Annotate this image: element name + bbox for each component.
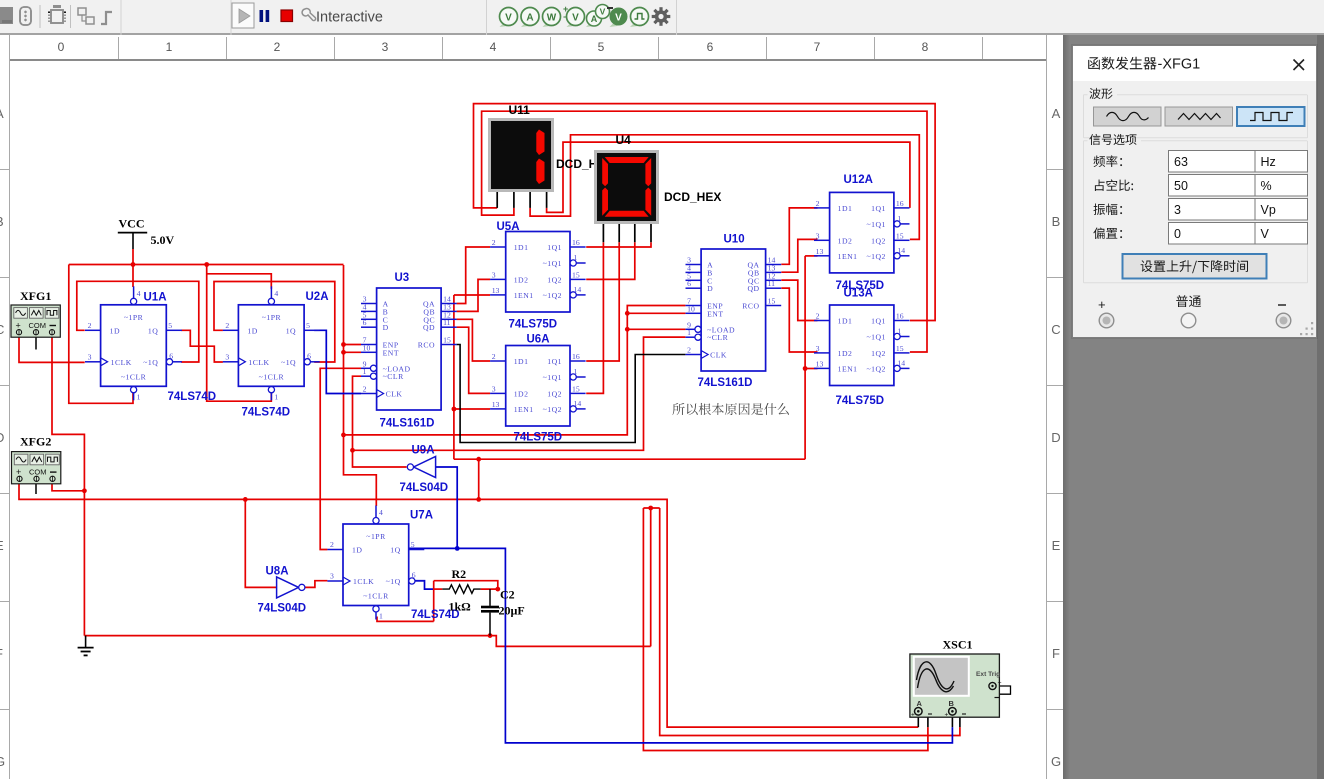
wire U10 QD to U13A 1D2 (781, 288, 817, 352)
svg-text:Ext Trig: Ext Trig (976, 671, 1000, 678)
svg-text:~1Q2: ~1Q2 (866, 364, 885, 373)
wire ground rail bottom (84, 635, 490, 637)
svg-text:1D: 1D (352, 546, 362, 555)
svg-text:1EN1: 1EN1 (514, 405, 534, 414)
junction XFG2 minus / XFG1 minus (82, 488, 87, 493)
desk gray area (1063, 35, 1324, 779)
wire XFG1 minus to ground rail (52, 337, 84, 635)
wire R2 right lead to C2 node (481, 588, 498, 590)
wire U13A 1EN1 stub link (805, 368, 817, 370)
svg-text:1Q1: 1Q1 (871, 204, 886, 213)
svg-text:ENT: ENT (383, 348, 399, 357)
junction VCC / U3 ENP (341, 342, 346, 347)
wire U3 QD to U6A 1D2 (457, 327, 491, 393)
svg-text:+: + (998, 680, 1002, 687)
junction U9A output net (350, 448, 355, 453)
svg-text:74LS04D: 74LS04D (258, 603, 307, 615)
svg-text:1Q1: 1Q1 (547, 357, 562, 366)
svg-text:15: 15 (896, 231, 904, 240)
junction VCC rail / U1A (131, 262, 136, 267)
svg-text:15: 15 (572, 270, 580, 279)
svg-text:1D2: 1D2 (838, 349, 853, 358)
svg-text:RCO: RCO (742, 302, 759, 311)
svg-text:1Q2: 1Q2 (871, 349, 886, 358)
svg-text:16: 16 (572, 238, 580, 247)
counter U10 74LS161D (686, 249, 782, 371)
junction enable / U6A 1EN1 (452, 407, 457, 412)
ground (78, 636, 94, 656)
svg-text:13: 13 (492, 400, 500, 409)
wire U5A 1Q2 to U4 display pin 3 (586, 242, 635, 279)
seven segment display U4 (594, 150, 659, 242)
wire XFG1 plus to U1A CLK (19, 337, 85, 362)
wire U2A clear loop (207, 265, 272, 402)
svg-text:0: 0 (1174, 227, 1181, 241)
svg-text:~1PR: ~1PR (124, 313, 144, 322)
wire U3 QC to U6A 1D1 (457, 319, 491, 361)
svg-text:U9A: U9A (412, 445, 435, 457)
svg-text:4: 4 (379, 508, 383, 517)
junction VCC rail / U2A loop (204, 262, 209, 267)
svg-text:%: % (1261, 179, 1272, 193)
wire U13A 1Q1 to U11 display pin 1 (474, 104, 936, 321)
svg-text:CLK: CLK (710, 351, 727, 360)
svg-text:1CLK: 1CLK (111, 358, 132, 367)
wire U3 ~LOAD to U7A 1D (320, 368, 361, 549)
wire VCC down branch to U3 enables (344, 265, 377, 506)
svg-text:V: V (505, 13, 512, 24)
flip-flop U1A (85, 286, 182, 401)
svg-text:3: 3 (88, 352, 92, 361)
svg-text:6: 6 (412, 571, 416, 580)
svg-text:1: 1 (574, 367, 578, 376)
wire latch enable vertical branch (478, 459, 480, 499)
svg-text:~CLR: ~CLR (383, 372, 404, 381)
svg-text:1D1: 1D1 (838, 204, 853, 213)
svg-text:+: + (945, 712, 949, 719)
svg-text:XFG1: XFG1 (20, 289, 51, 303)
junction XFG2 plus / latch enable branch (476, 497, 481, 502)
junction VCC / U10 ENT (625, 311, 630, 316)
svg-text:14: 14 (897, 246, 905, 255)
svg-text:R2: R2 (452, 567, 467, 581)
svg-text:1D1: 1D1 (514, 243, 529, 252)
svg-text:RCO: RCO (418, 341, 435, 350)
svg-text:V: V (1261, 227, 1270, 241)
svg-text:13: 13 (816, 359, 824, 368)
svg-text:14: 14 (574, 285, 582, 294)
svg-text:1Q1: 1Q1 (547, 243, 562, 252)
wire R2 bypass top (434, 581, 498, 589)
svg-text:~1Q: ~1Q (143, 358, 158, 367)
svg-text:2: 2 (492, 238, 496, 247)
svg-text:2: 2 (88, 321, 92, 330)
wire U1A 1Q to U2A CLK (181, 330, 223, 362)
wire XFG1 COM stub (35, 337, 37, 349)
svg-text:COM: COM (29, 468, 47, 477)
svg-text:2: 2 (816, 312, 820, 321)
svg-text:2: 2 (330, 540, 334, 549)
function generator dialog (1072, 45, 1317, 338)
svg-text:Interactive: Interactive (316, 10, 383, 26)
wire U1A preset/clear loop (69, 265, 133, 404)
svg-text:74LS161D: 74LS161D (380, 418, 435, 430)
junction C2 bottom / ground rail (488, 633, 493, 638)
seven segment display U11 (488, 118, 554, 208)
wire XFG2 COM stub (35, 482, 37, 494)
svg-text:1D2: 1D2 (514, 389, 529, 398)
svg-text:1: 1 (897, 214, 901, 223)
latch U12A 74LS75D (814, 192, 910, 273)
svg-text:D: D (383, 323, 389, 332)
svg-text:~1Q2: ~1Q2 (866, 252, 885, 261)
svg-text:13: 13 (816, 247, 824, 256)
svg-text:1: 1 (687, 328, 691, 337)
wire U2A ~1Q feedback to 1D (214, 282, 335, 363)
svg-text:1Q: 1Q (148, 326, 158, 335)
wire VCC rail net (69, 264, 344, 266)
wire U13A 1Q2 to U11 display pin 2 (482, 111, 927, 352)
wire VCC to U3 ENT (344, 351, 362, 353)
svg-text:-XFG1: -XFG1 (1158, 57, 1201, 73)
wire U2A 1Q to U3 CLK blue (314, 330, 361, 393)
wire VCC branch right to U10 (344, 306, 686, 435)
svg-text:16: 16 (572, 352, 580, 361)
svg-text:6: 6 (363, 318, 367, 327)
svg-text:74LS75D: 74LS75D (509, 319, 558, 331)
svg-text:1D1: 1D1 (514, 357, 529, 366)
junction VCC branch (341, 433, 346, 438)
wire enable to U5A U6A 1EN1 (453, 295, 455, 459)
svg-text:1Q2: 1Q2 (547, 275, 562, 284)
svg-text:10: 10 (363, 343, 371, 352)
wire U12A 1Q1 to U11 display pin 4 (547, 142, 910, 212)
svg-text:ENT: ENT (707, 309, 723, 318)
wire scope A minus stub black (922, 711, 928, 727)
svg-text:COM: COM (29, 321, 47, 330)
svg-text:QD: QD (423, 323, 435, 332)
sheet canvas (0, 35, 1063, 779)
svg-text:74LS74D: 74LS74D (168, 391, 217, 403)
svg-text:2: 2 (225, 321, 229, 330)
svg-text:U4: U4 (616, 133, 632, 147)
junction enable / U13A 1EN1 (803, 366, 808, 371)
svg-text:3: 3 (330, 572, 334, 581)
svg-text:1: 1 (274, 392, 278, 401)
svg-text:2: 2 (363, 385, 367, 394)
svg-text:XFG2: XFG2 (20, 435, 51, 449)
svg-text:5: 5 (411, 540, 415, 549)
svg-text:C2: C2 (500, 588, 515, 602)
svg-text:74LS74D: 74LS74D (242, 407, 291, 419)
svg-text:1: 1 (363, 367, 367, 376)
svg-text:~1Q: ~1Q (281, 358, 296, 367)
wire enable to U12A U13A 1EN1 (804, 256, 806, 459)
wire R2 left lead (434, 588, 443, 590)
svg-text:2: 2 (492, 352, 496, 361)
svg-text:~CLR: ~CLR (707, 333, 728, 342)
wire U10 ENT link (627, 312, 685, 314)
flip-flop U7A (327, 506, 424, 621)
wire U10 QC to U13A 1D1 (781, 280, 817, 320)
svg-text:1D: 1D (247, 326, 257, 335)
wire U6A 1EN1 stub link (454, 408, 490, 410)
svg-text:6: 6 (307, 351, 311, 360)
svg-text:~1PR: ~1PR (262, 313, 282, 322)
wire U1A ~1Q feedback to 1D (77, 281, 199, 362)
svg-text:~1Q2: ~1Q2 (543, 291, 562, 300)
svg-text:1Q: 1Q (390, 546, 400, 555)
wire U3 QB to U5A 1D2 (457, 279, 491, 311)
svg-text:74LS75D: 74LS75D (514, 432, 563, 444)
svg-text:+: + (16, 321, 21, 331)
svg-text:V: V (615, 13, 622, 24)
oscilloscope XSC1 (910, 654, 1002, 719)
svg-text:6: 6 (687, 279, 691, 288)
svg-text:16: 16 (896, 312, 904, 321)
svg-text:10: 10 (687, 304, 695, 313)
wire U7A ~1CLR loop (377, 617, 434, 622)
wire XFG2 plus long run to scope A (19, 482, 918, 727)
wire ground to scope A minus (643, 508, 928, 751)
svg-text:1kΩ: 1kΩ (449, 600, 472, 614)
svg-text:16: 16 (896, 199, 904, 208)
svg-text:VCC: VCC (119, 217, 145, 231)
svg-text:XSC1: XSC1 (943, 638, 973, 652)
svg-text:V: V (572, 13, 579, 24)
latch U5A 74LS75D (490, 232, 585, 313)
svg-text:U10: U10 (724, 234, 745, 246)
wire scope A plus stub black (917, 715, 919, 728)
svg-text:1: 1 (574, 253, 578, 262)
svg-text:U8A: U8A (266, 566, 289, 578)
svg-text:15: 15 (768, 297, 776, 306)
svg-text:15: 15 (896, 344, 904, 353)
junction enable run / branch (476, 457, 481, 462)
wire U8A output to U7A CLK (305, 581, 327, 588)
svg-text:1Q2: 1Q2 (871, 236, 886, 245)
svg-text:15: 15 (572, 384, 580, 393)
svg-text:3: 3 (816, 231, 820, 240)
svg-text:A: A (526, 13, 533, 24)
junction R2 right / C2 (495, 587, 500, 592)
svg-text:QD: QD (747, 284, 759, 293)
svg-text:74LS75D: 74LS75D (836, 395, 885, 407)
svg-text:1CLK: 1CLK (353, 577, 374, 586)
svg-text:1EN1: 1EN1 (838, 364, 858, 373)
svg-text:+: + (1098, 297, 1106, 312)
wire U12A 1Q2 to U11 display pin 3 (530, 135, 919, 240)
wire branch to U8A input (245, 499, 276, 587)
svg-text:A: A (917, 699, 923, 708)
svg-text:13: 13 (492, 286, 500, 295)
junction VCC / U10 ~LOAD (625, 327, 630, 332)
wire U9A output to U3 ~CLR (353, 376, 407, 467)
svg-text:11: 11 (768, 279, 776, 288)
wire U7A 1Q to scope B plus blue (409, 548, 952, 743)
svg-text:U7A: U7A (410, 510, 433, 522)
svg-text:14: 14 (574, 399, 582, 408)
svg-text:74LS04D: 74LS04D (400, 482, 449, 494)
svg-text:63: 63 (1174, 155, 1188, 169)
svg-text:5: 5 (306, 321, 310, 330)
svg-text:U6A: U6A (527, 334, 550, 346)
wire scope B minus stub black (954, 711, 960, 727)
svg-text:U13A: U13A (844, 288, 873, 300)
svg-text:~1PR: ~1PR (366, 532, 386, 541)
svg-text:3: 3 (492, 384, 496, 393)
wire XFG2 minus joins ground net (52, 482, 84, 491)
svg-text:Vp: Vp (1261, 203, 1276, 217)
wire U5A 1EN1 stub link (454, 294, 490, 296)
wire VCC to U1A pin 4 (132, 233, 134, 249)
svg-text:CLK: CLK (386, 390, 403, 399)
svg-text:1D1: 1D1 (838, 317, 853, 326)
capacitor C2 (481, 589, 499, 636)
wire U7A ~1Q jog blue (413, 581, 434, 589)
svg-text:1D2: 1D2 (514, 275, 529, 284)
svg-text:~1Q1: ~1Q1 (866, 333, 885, 342)
svg-text:74LS161D: 74LS161D (698, 377, 753, 389)
svg-text:1CLK: 1CLK (248, 358, 269, 367)
svg-text:V: V (600, 7, 606, 17)
svg-text:U3: U3 (395, 272, 410, 284)
inverter U9A (407, 457, 435, 478)
ruler (10, 37, 1046, 61)
svg-text:U1A: U1A (144, 292, 167, 304)
svg-text:1EN1: 1EN1 (838, 252, 858, 261)
svg-text:~1Q1: ~1Q1 (543, 259, 562, 268)
svg-text:3: 3 (1174, 203, 1181, 217)
svg-text:2: 2 (687, 346, 691, 355)
wire U2A preset loop (207, 274, 272, 289)
svg-text:~1CLR: ~1CLR (363, 592, 389, 601)
function generator XFG1 (11, 305, 60, 337)
resistor R2 (442, 585, 480, 594)
wire U10 ~LOAD link (627, 328, 685, 330)
latch U6A 74LS75D (490, 346, 585, 427)
svg-text:~1Q: ~1Q (386, 577, 401, 586)
svg-text:1EN1: 1EN1 (514, 291, 534, 300)
wire ext trig stub black (990, 686, 1011, 694)
svg-text:2: 2 (816, 199, 820, 208)
power VCC (118, 217, 175, 248)
svg-text:D: D (707, 284, 713, 293)
wire ground riser (650, 508, 652, 646)
wire VCC to U3 ENP (344, 344, 362, 346)
svg-text:+: + (16, 467, 21, 477)
svg-text:11: 11 (443, 318, 451, 327)
svg-text:3: 3 (492, 270, 496, 279)
wire U6A 1Q2 to U4 display pin 1 (586, 242, 603, 393)
svg-text:~1CLR: ~1CLR (259, 372, 285, 381)
svg-text:+: + (911, 712, 915, 719)
wire U10 QA to U12A 1D1 (781, 208, 817, 264)
junction XFG2 plus / U8A branch (243, 497, 248, 502)
counter U3 74LS161D (361, 288, 457, 410)
svg-text:W: W (547, 13, 557, 24)
toolbar (0, 0, 1324, 35)
svg-text:~1Q1: ~1Q1 (866, 220, 885, 229)
wire scope B plus stub black (951, 715, 953, 728)
svg-text:1: 1 (379, 612, 383, 621)
junction ground bar (648, 506, 653, 511)
svg-text:1: 1 (137, 392, 141, 401)
svg-text:U5A: U5A (497, 221, 520, 233)
wire U9A input from U7A 1Q blue (436, 467, 458, 548)
flip-flop U2A (223, 286, 320, 401)
wire ground to scope B minus (660, 508, 960, 736)
svg-text:3: 3 (816, 344, 820, 353)
junction U7A 1Q blue net (455, 546, 460, 551)
svg-text:14: 14 (897, 358, 905, 367)
svg-text:DCD_HEX: DCD_HEX (664, 190, 721, 204)
svg-text:~1CLR: ~1CLR (121, 372, 147, 381)
svg-text:1Q: 1Q (286, 326, 296, 335)
function generator XFG2 (12, 452, 61, 484)
wire U5A 1Q1 to U4 display pin 4 (586, 242, 651, 247)
svg-text:1Q1: 1Q1 (871, 317, 886, 326)
svg-text:Hz: Hz (1261, 155, 1276, 169)
svg-text:B: B (949, 699, 955, 708)
wire U9A output branch to U10 ~CLR (353, 337, 686, 450)
svg-text:3: 3 (225, 352, 229, 361)
wire R2 bypass vertical (433, 581, 435, 622)
svg-text:U12A: U12A (844, 174, 873, 186)
svg-text:1Q2: 1Q2 (547, 389, 562, 398)
annotation text (672, 403, 788, 415)
svg-text:5: 5 (168, 321, 172, 330)
wire ground distribution bar (643, 507, 659, 509)
svg-text:~1Q1: ~1Q1 (543, 373, 562, 382)
wire U12A 1EN1 stub link (805, 255, 817, 257)
svg-text:1: 1 (897, 327, 901, 336)
svg-text:~1Q2: ~1Q2 (543, 405, 562, 414)
wire C2 to ground rail jog (490, 636, 651, 647)
inverter U8A (277, 577, 305, 598)
wire latch enable horizontal run (454, 458, 805, 460)
svg-text:U11: U11 (509, 103, 531, 117)
svg-text:15: 15 (443, 336, 451, 345)
svg-text:6: 6 (169, 351, 173, 360)
junction VCC / U3 ENT (341, 350, 346, 355)
svg-text:4: 4 (274, 289, 278, 298)
wire U10 QB to U12A 1D2 (781, 239, 817, 272)
svg-text:50: 50 (1174, 179, 1188, 193)
svg-text:5.0V: 5.0V (151, 233, 175, 247)
svg-text:U2A: U2A (306, 291, 329, 303)
svg-text:4: 4 (137, 289, 141, 298)
wire U3 RCO to U10 CLK black (457, 345, 686, 443)
latch U13A 74LS75D (814, 305, 910, 386)
svg-text:1D: 1D (110, 326, 120, 335)
svg-text:20µF: 20µF (499, 604, 525, 618)
wire U6A 1Q1 to U4 display pin 2 (586, 242, 619, 361)
svg-text:1D2: 1D2 (838, 236, 853, 245)
wire U3 QA to U5A 1D1 (457, 247, 491, 304)
